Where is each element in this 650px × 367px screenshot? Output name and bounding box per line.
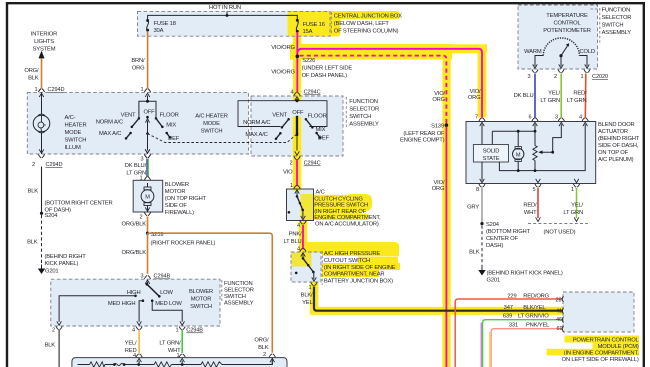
svg-text:7: 7 <box>475 115 478 121</box>
A/C high pressure cutout switch box <box>291 252 321 282</box>
highlighter: switch blade and VIO wire down to clutch switch <box>293 117 302 191</box>
svg-text:ORG/BLK: ORG/BLK <box>121 222 146 228</box>
svg-text:3: 3 <box>140 157 143 163</box>
blend door actuator box <box>466 122 596 184</box>
PCM pin 28 connector arc <box>562 296 563 302</box>
blower motor switch bottom pins <box>56 321 62 329</box>
PCM pin 41 connector arc <box>562 308 563 314</box>
wire BRN/ORG fuse 18 to mode switch <box>147 31 149 88</box>
wire RED/WHT not used <box>537 188 539 218</box>
svg-text:CENTRAL JUNCTION BOX: CENTRAL JUNCTION BOX <box>334 13 402 19</box>
function selector switch blade (highlighted) <box>296 116 299 119</box>
svg-text:ASSEMBLY: ASSEMBLY <box>602 30 632 36</box>
wire LT GRN/WHT to resistor <box>181 330 183 353</box>
svg-text:COMPARTMENT, NEAR: COMPARTMENT, NEAR <box>324 271 385 277</box>
splice S226 dot over wires <box>296 55 300 59</box>
svg-text:(BOTTOM RIGHT: (BOTTOM RIGHT <box>486 229 531 235</box>
resistor chain node pin 4 <box>137 363 140 366</box>
splice S239 <box>146 232 149 235</box>
wire YEL/LT GRN pot to blend door <box>560 74 562 119</box>
svg-text:331: 331 <box>509 323 518 329</box>
highlighter: vio/org wire below fuse 16 <box>293 35 301 101</box>
svg-text:STATE: STATE <box>483 156 500 162</box>
svg-text:ORG: ORG <box>132 66 145 72</box>
highlighter: solid vio/org branch down to blend door <box>478 45 487 118</box>
svg-text:ORG: ORG <box>432 186 445 192</box>
blower motor switch HIGH contact and wire to pin 2 <box>134 295 137 298</box>
clutch cycling pressure switch box <box>287 189 314 221</box>
svg-text:28: 28 <box>555 298 561 304</box>
svg-text:ACTUATOR: ACTUATOR <box>598 129 628 135</box>
svg-text:(RIGHT ROCKER PANEL): (RIGHT ROCKER PANEL) <box>151 241 216 247</box>
svg-text:DK BLU/: DK BLU/ <box>125 163 147 169</box>
svg-text:SWITCH: SWITCH <box>201 129 223 135</box>
svg-text:2: 2 <box>32 162 35 168</box>
svg-text:BLOWER: BLOWER <box>165 182 189 188</box>
svg-text:CUTOUT SWITCH: CUTOUT SWITCH <box>324 258 370 264</box>
svg-text:BATTERY JUNCTION BOX): BATTERY JUNCTION BOX) <box>324 278 393 284</box>
svg-text:OF DASH PANEL): OF DASH PANEL) <box>302 73 348 79</box>
svg-text:SWITCH: SWITCH <box>224 294 246 300</box>
svg-text:(ON TOP RIGHT: (ON TOP RIGHT <box>165 196 207 202</box>
svg-text:SWITCH: SWITCH <box>602 23 624 29</box>
wire PNK/LT BLU to cutout switch <box>302 225 304 249</box>
svg-text:MOTOR: MOTOR <box>165 189 186 195</box>
svg-text:DEF: DEF <box>168 136 180 142</box>
svg-text:229: 229 <box>507 294 516 300</box>
not used connector dashed line <box>528 223 588 225</box>
svg-text:LT GRN: LT GRN <box>540 98 560 104</box>
svg-text:BLK: BLK <box>28 189 39 195</box>
svg-text:41: 41 <box>556 308 562 314</box>
highlighter: fuse 16 blob <box>288 12 341 37</box>
wire solid state to pin 8 <box>481 162 483 181</box>
svg-text:LT GRN/VIO: LT GRN/VIO <box>518 314 549 320</box>
svg-text:HOT IN RUN: HOT IN RUN <box>209 5 241 11</box>
svg-text:FIREWALL): FIREWALL) <box>165 210 194 216</box>
highlighter: horizontal vio/org double run <box>290 44 452 60</box>
resistor element 1 <box>90 362 105 367</box>
function selector switch box border <box>251 96 343 156</box>
svg-text:SWITCH: SWITCH <box>65 138 87 144</box>
svg-text:ORG/: ORG/ <box>254 338 269 344</box>
svg-text:BLK: BLK <box>469 250 480 256</box>
box fill: function selector switch box <box>251 96 343 156</box>
box fill: clutch cycling pressure switch <box>287 189 314 221</box>
svg-text:LT GRN: LT GRN <box>126 171 146 177</box>
svg-text:OFF: OFF <box>292 110 304 116</box>
svg-text:C294D: C294D <box>46 162 63 168</box>
svg-text:OF STEERING COLUMN): OF STEERING COLUMN) <box>334 28 399 34</box>
wire YEL/LT GRN not used <box>576 188 578 218</box>
svg-text:HEATER: HEATER <box>65 123 87 129</box>
svg-text:SIDE OF: SIDE OF <box>165 203 188 209</box>
box fill: blower motor <box>133 180 163 212</box>
svg-text:C294B: C294B <box>186 328 203 334</box>
function selector switch assembly label (bottom) <box>221 280 223 303</box>
blower motor switch MED LOW contact and wire to pin 1 <box>151 299 154 302</box>
svg-text:1: 1 <box>308 285 311 291</box>
potentiometer wiper <box>542 124 562 152</box>
resistor chain <box>78 361 273 365</box>
resistor element 2 <box>154 362 171 367</box>
wire BLK from blower switch pin 2 <box>58 330 60 367</box>
resistor element 3 <box>201 362 222 367</box>
central junction box border <box>138 11 331 36</box>
svg-text:M: M <box>516 152 521 158</box>
svg-text:3: 3 <box>527 74 530 80</box>
svg-text:ENGINE COMPT): ENGINE COMPT) <box>400 137 445 143</box>
resistor chain node pin 1 <box>181 363 184 366</box>
blower motor box <box>133 180 163 212</box>
svg-text:639: 639 <box>503 314 512 320</box>
svg-text:FUNCTION: FUNCTION <box>602 8 631 14</box>
svg-text:BLOWER: BLOWER <box>189 289 213 295</box>
svg-text:LIGHTS: LIGHTS <box>34 39 54 45</box>
svg-text:MAX A/C: MAX A/C <box>99 131 121 137</box>
PCM pin 69 connector arc <box>562 326 563 332</box>
function selector switch frame <box>238 101 327 127</box>
svg-text:CONTROL: CONTROL <box>553 20 581 26</box>
svg-text:ON A/C ACCUMULATOR): ON A/C ACCUMULATOR) <box>315 222 379 228</box>
svg-text:INTERIOR: INTERIOR <box>31 32 57 38</box>
svg-text:G201: G201 <box>487 278 500 284</box>
svg-text:BLK: BLK <box>27 240 38 246</box>
highlighter: dashed vio/org branch down through S139 <box>442 51 450 367</box>
highlighter: cutout switch text blob <box>303 242 399 253</box>
box fill: blower motor resistor <box>72 358 287 367</box>
svg-text:YEL/: YEL/ <box>548 91 560 97</box>
svg-text:(BEHIND RIGHT: (BEHIND RIGHT <box>45 254 87 260</box>
svg-text:C294B: C294B <box>154 274 171 280</box>
svg-text:M: M <box>145 195 150 201</box>
svg-text:BLK: BLK <box>28 76 39 82</box>
splice S226 <box>296 55 299 58</box>
svg-text:PNK/YEL: PNK/YEL <box>526 323 550 329</box>
box fill: blend door actuator <box>466 122 596 184</box>
PCM box <box>563 292 634 332</box>
svg-text:TEMPERATURE: TEMPERATURE <box>546 13 588 19</box>
svg-text:MAX A/C: MAX A/C <box>245 132 267 138</box>
mode switch 1: blade <box>146 116 149 119</box>
svg-text:PNK/: PNK/ <box>289 232 302 238</box>
lower bus in blend door actuator <box>499 124 585 170</box>
svg-text:(IN RIGHT SIDE OF ENGINE: (IN RIGHT SIDE OF ENGINE <box>324 265 396 271</box>
svg-text:(UNDER LEFT SIDE: (UNDER LEFT SIDE <box>302 66 353 72</box>
svg-text:OFF: OFF <box>143 110 155 116</box>
wire RED/ORG to PCM pin 28 <box>455 299 562 367</box>
svg-text:CLUTCH CYCLING: CLUTCH CYCLING <box>314 196 363 202</box>
svg-text:2: 2 <box>52 328 55 334</box>
svg-text:(BOTTOM RIGHT CENTER: (BOTTOM RIGHT CENTER <box>45 201 113 207</box>
box fill: powertrain control module <box>563 292 634 332</box>
svg-text:(BEHIND RIGHT: (BEHIND RIGHT <box>598 136 640 142</box>
wire LT GRN/VIO to PCM pin 46 <box>480 323 482 367</box>
svg-text:ORG: ORG <box>468 95 481 101</box>
svg-text:COLD: COLD <box>580 49 595 55</box>
svg-text:3: 3 <box>555 115 558 121</box>
wire: hot in run bus inside CJB <box>148 11 298 20</box>
highlighter: clutch cycling text lines <box>314 195 368 201</box>
svg-text:A/C HIGH PRESSURE: A/C HIGH PRESSURE <box>324 251 381 257</box>
svg-text:G201: G201 <box>45 269 58 275</box>
function selector switch contacts <box>287 118 290 121</box>
wire DK BLU/LT GRN to blower motor <box>146 159 148 178</box>
splice S204 (left) <box>40 212 43 215</box>
svg-text:ORG: ORG <box>432 97 445 103</box>
svg-text:VIO/ORG: VIO/ORG <box>271 45 295 51</box>
svg-text:MODULE (PCM): MODULE (PCM) <box>598 344 639 350</box>
highlighter: clutch cycling switch interior <box>301 194 314 220</box>
svg-text:1: 1 <box>571 187 574 193</box>
highlighter: blk/yel wire vertical <box>310 282 319 309</box>
box fill: blower motor switch <box>51 279 220 326</box>
blend door internal wiring <box>481 124 483 144</box>
box fill: A/C heater mode switch box <box>27 92 248 154</box>
svg-text:C294C: C294C <box>304 90 321 96</box>
potentiometer wiper arm <box>559 54 562 57</box>
wire: VIO/ORG from S139 down off page <box>445 125 447 367</box>
svg-text:KICK PANEL): KICK PANEL) <box>45 261 79 267</box>
svg-text:ON TOP OF: ON TOP OF <box>598 150 629 156</box>
blower motor switch blade <box>147 282 149 284</box>
mode switch 1: contacts <box>132 118 139 127</box>
svg-text:C2020: C2020 <box>592 74 608 80</box>
svg-text:6: 6 <box>528 115 531 121</box>
svg-text:BLEND DOOR: BLEND DOOR <box>598 122 635 128</box>
svg-text:WARM: WARM <box>524 49 542 55</box>
svg-text:4: 4 <box>579 115 582 121</box>
solid state module <box>473 145 508 163</box>
wire: solid VIO/ORG branch to blend door actuator pin 7 <box>297 49 482 118</box>
blend door motor <box>517 131 519 170</box>
svg-text:FUSE 18: FUSE 18 <box>154 21 176 27</box>
blower motor symbol <box>147 183 149 212</box>
connector pin 3 below mode switch <box>144 149 150 157</box>
svg-text:4: 4 <box>133 353 136 359</box>
svg-text:1: 1 <box>176 353 179 359</box>
svg-text:LOW: LOW <box>160 290 173 296</box>
svg-text:A/C: A/C <box>316 189 325 195</box>
node: hot in run tap <box>226 14 229 17</box>
svg-text:ASSEMBLY: ASSEMBLY <box>349 121 379 127</box>
PCM pin 46 connector arc <box>562 317 563 323</box>
svg-text:BRN/: BRN/ <box>131 58 145 64</box>
clutch cycling pressure switch contacts <box>296 192 298 196</box>
svg-text:30A: 30A <box>154 28 164 34</box>
svg-text:BLK: BLK <box>45 343 56 349</box>
A/C-heater mode switch illumination lamp <box>41 92 43 154</box>
svg-text:1: 1 <box>580 74 583 80</box>
svg-text:ORG/BLK: ORG/BLK <box>121 250 146 256</box>
svg-text:LT GRN: LT GRN <box>563 210 583 216</box>
cutout switch label bracket <box>321 251 323 285</box>
svg-text:VENT: VENT <box>121 113 136 119</box>
svg-text:RED/: RED/ <box>573 91 587 97</box>
svg-text:SWITCH: SWITCH <box>349 114 371 120</box>
svg-text:DASH): DASH) <box>486 243 503 249</box>
svg-text:PRESSURE SWITCH: PRESSURE SWITCH <box>314 203 368 209</box>
svg-text:MED HIGH: MED HIGH <box>108 301 136 307</box>
svg-text:POTENTIOMETER: POTENTIOMETER <box>543 28 591 34</box>
wire VIO to clutch cycling pressure switch <box>296 160 298 187</box>
wire: dashed VIO/ORG branch to S139 <box>300 56 447 124</box>
cutout switch pin 1 <box>311 277 317 285</box>
mode switch 1: feed bar <box>139 96 156 119</box>
svg-text:SYSTEM: SYSTEM <box>33 47 56 53</box>
svg-text:S226: S226 <box>302 58 315 64</box>
svg-text:FUSE 16: FUSE 16 <box>303 22 325 28</box>
svg-text:FLOOR: FLOOR <box>308 113 327 119</box>
svg-text:FLOOR: FLOOR <box>160 113 179 119</box>
svg-text:2: 2 <box>554 74 557 80</box>
svg-text:HIGH: HIGH <box>127 290 141 296</box>
wire GRY blend door pin 8 to S204 <box>481 188 483 224</box>
svg-text:5: 5 <box>532 187 535 193</box>
svg-text:MIX: MIX <box>166 122 176 128</box>
highlighter: pnk/lt blu wire <box>299 221 308 253</box>
wire ORG/BLK branch from S239 to blower motor resistor pin 2 <box>148 233 273 353</box>
svg-text:SELECTOR: SELECTOR <box>224 288 254 294</box>
wire ORG/BLK from S239 to blower switch <box>147 233 149 274</box>
svg-text:69: 69 <box>556 326 562 332</box>
svg-text:BLK/: BLK/ <box>301 293 313 299</box>
fuse F18 symbol <box>146 19 149 22</box>
svg-text:VIO: VIO <box>283 169 293 175</box>
svg-text:C294C: C294C <box>304 161 321 167</box>
mode switch 1: wire to pin 3 <box>147 134 149 151</box>
wire PNK/YEL to PCM pin 69 <box>489 332 491 367</box>
temperature control potentiometer box <box>518 5 598 69</box>
wire BLK lamp to S204 <box>41 167 43 214</box>
box fill: central junction box <box>138 11 331 36</box>
svg-text:MODE: MODE <box>65 130 82 136</box>
potentiometer arc <box>543 38 579 56</box>
wire VIO/ORG fuse 16 to S226 to selector switch <box>296 32 298 92</box>
wire DK BLU pot to blend door <box>534 74 536 119</box>
svg-text:ENGINE COMPARTMENT,: ENGINE COMPARTMENT, <box>314 215 381 221</box>
svg-text:(LEFT REAR OF: (LEFT REAR OF <box>403 131 445 137</box>
svg-text:S139: S139 <box>431 123 444 129</box>
svg-text:4: 4 <box>132 328 135 334</box>
wire ORG/BLK blower motor to S239 <box>147 217 149 234</box>
svg-text:CENTER OF: CENTER OF <box>486 236 519 242</box>
wire BLK dashed to G201 (left) <box>41 215 43 265</box>
svg-text:A/C-: A/C- <box>65 115 76 121</box>
svg-text:MODE: MODE <box>203 121 220 127</box>
svg-text:ORG/: ORG/ <box>24 68 39 74</box>
svg-text:NORM A/C: NORM A/C <box>96 120 123 126</box>
svg-text:347: 347 <box>504 305 513 311</box>
svg-text:A/C HEATER: A/C HEATER <box>195 114 228 120</box>
svg-text:2: 2 <box>289 161 292 167</box>
svg-text:46: 46 <box>556 317 562 323</box>
svg-text:POWERTRAIN CONTROL: POWERTRAIN CONTROL <box>573 338 640 344</box>
box fill: temperature control potentiometer <box>518 5 598 69</box>
svg-text:1: 1 <box>290 183 293 189</box>
splice S204 (right) <box>480 222 483 225</box>
svg-text:(IN RIGHT REAR OF: (IN RIGHT REAR OF <box>314 209 366 215</box>
A/C heater mode switch box border <box>27 92 248 154</box>
highlighter: PCM text lines <box>565 336 640 343</box>
function selector switch assembly label (middle) <box>345 97 347 127</box>
svg-text:(BEHIND RIGHT KICK PANEL): (BEHIND RIGHT KICK PANEL) <box>487 271 563 277</box>
blower motor resistor box <box>72 358 287 367</box>
ground G201 (right) <box>481 266 483 270</box>
svg-text:VENT: VENT <box>272 113 287 119</box>
blend door actuator bottom pins 8 5 1 <box>479 179 485 187</box>
potentiometer pins and wires <box>560 56 562 66</box>
svg-text:RED/ORG: RED/ORG <box>523 294 549 300</box>
function selector switch wire to pin 2 <box>296 136 298 151</box>
svg-text:DEF: DEF <box>318 136 330 142</box>
svg-text:LT GRN: LT GRN <box>567 98 587 104</box>
svg-text:SIDE OF DASH,: SIDE OF DASH, <box>598 143 639 149</box>
svg-text:SELECTOR: SELECTOR <box>349 106 379 112</box>
svg-text:4: 4 <box>297 223 300 229</box>
svg-text:A/C PLENUM): A/C PLENUM) <box>598 157 634 163</box>
central junction box label bracket <box>330 12 332 33</box>
svg-text:SELECTOR: SELECTOR <box>602 15 632 21</box>
blower motor pin 2 <box>144 207 150 215</box>
svg-text:ON LEFT SIDE OF FIREWALL): ON LEFT SIDE OF FIREWALL) <box>562 357 639 363</box>
box fill: A/C high pressure cutout switch <box>291 252 321 282</box>
svg-text:2: 2 <box>139 215 142 221</box>
svg-text:VIO/ORG: VIO/ORG <box>271 70 295 76</box>
svg-text:YEL: YEL <box>302 300 313 306</box>
svg-text:DK BLU: DK BLU <box>514 93 534 99</box>
svg-text:BLK/YEL: BLK/YEL <box>523 305 546 311</box>
cutout switch contacts <box>302 255 304 258</box>
svg-text:1: 1 <box>175 328 178 334</box>
svg-text:8: 8 <box>476 187 479 193</box>
mode switch 1: def dashed blade position <box>148 134 297 143</box>
svg-text:LT GRN/: LT GRN/ <box>159 341 181 347</box>
svg-text:4: 4 <box>290 90 293 96</box>
svg-text:SOLID: SOLID <box>483 149 500 155</box>
ground G201 (left) <box>41 265 43 269</box>
highlighter: cutout switch interior <box>292 253 312 267</box>
svg-text:FUNCTION: FUNCTION <box>349 99 378 105</box>
svg-text:(BELOW DASH, LEFT: (BELOW DASH, LEFT <box>334 21 390 27</box>
svg-text:ASSEMBLY: ASSEMBLY <box>224 301 254 307</box>
svg-text:3: 3 <box>140 274 143 280</box>
thermal limiter <box>113 363 116 366</box>
blend door feedback potentiometer <box>534 131 536 170</box>
splice S139 <box>445 124 448 127</box>
svg-text:S204: S204 <box>486 222 500 228</box>
svg-text:FUNCTION: FUNCTION <box>224 281 253 287</box>
function selector switch assembly label (top right) <box>591 8 600 45</box>
wire ORG/BLK to interior lights <box>41 58 43 88</box>
fuse F16 symbol <box>296 19 299 22</box>
wire BLK/YEL cutout switch to PCM <box>314 287 563 311</box>
svg-text:NORM A/C: NORM A/C <box>243 120 270 126</box>
svg-text:YEL/: YEL/ <box>125 341 137 347</box>
svg-text:GRY: GRY <box>467 205 479 211</box>
svg-text:BLK: BLK <box>258 345 269 351</box>
blower motor switch box border <box>51 279 220 326</box>
svg-text:C294D: C294D <box>48 87 65 93</box>
svg-text:15A: 15A <box>303 29 313 35</box>
svg-text:MIX: MIX <box>316 127 326 133</box>
clutch cycling pressure switch pin 4 <box>300 216 306 224</box>
svg-text:WHT: WHT <box>524 210 537 216</box>
svg-text:ILLUM: ILLUM <box>65 145 82 151</box>
highlighter: blk/yel wire horizontal to PCM <box>310 307 563 315</box>
svg-text:S204: S204 <box>45 213 59 219</box>
svg-text:(NOT USED): (NOT USED) <box>544 230 576 236</box>
